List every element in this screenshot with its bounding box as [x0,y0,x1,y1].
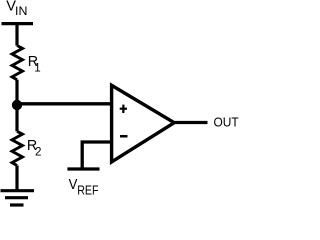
resistor R2 [12,131,23,165]
svg-text:IN: IN [15,4,27,18]
svg-text:2: 2 [35,146,41,159]
node VREF terminal bar [67,167,99,170]
wire R2 bottom to ground [15,166,18,191]
label R1 [28,54,41,74]
svg-text:1: 1 [34,62,40,75]
node A junction dot [12,100,22,110]
wire node A to op-amp plus input [17,102,113,105]
label R2 [27,138,42,159]
svg-text:REF: REF [77,182,98,197]
ground [1,191,35,205]
op-amp plus pin symbol [120,105,127,113]
op-amp minus pin symbol [120,135,128,138]
op-amp U1 [112,85,175,162]
label VREF [69,175,99,197]
wire R1 bottom to node A [15,80,18,105]
wire node A to R2 top [15,104,18,131]
wire op-amp minus input to VREF [82,142,112,168]
resistor R1 [12,46,23,80]
wire VIN bar to R1 top [15,24,18,46]
label VIN [6,0,27,18]
node VIN terminal bar [2,22,34,25]
wire op-amp output to OUT [175,121,208,124]
svg-text:OUT: OUT [214,115,239,130]
